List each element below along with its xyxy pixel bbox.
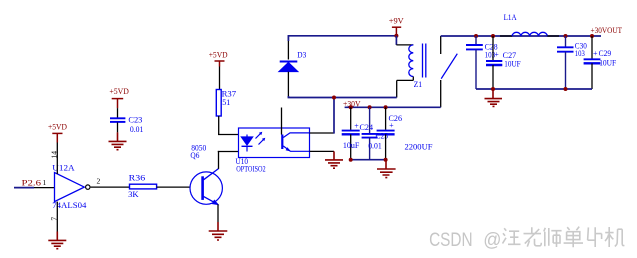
node junction bottom C26 bbox=[384, 158, 388, 162]
svg-text:3K: 3K bbox=[128, 190, 139, 199]
svg-text:C26: C26 bbox=[389, 114, 403, 123]
svg-text:P2.6: P2.6 bbox=[22, 179, 42, 188]
node junction C27 top bbox=[491, 34, 495, 38]
capacitor C27 bbox=[486, 36, 521, 89]
wire top rail (D3 to +9V node) bbox=[288, 36, 396, 41]
svg-text:+5VD: +5VD bbox=[48, 122, 67, 131]
svg-text:OPTOISO2: OPTOISO2 bbox=[236, 165, 266, 174]
capacitor C29 bbox=[584, 36, 617, 89]
op-amp U1 pin 14 bbox=[50, 143, 59, 175]
wire R37 to U10 anode bbox=[218, 134, 239, 136]
op-amp U1 pin 7 bbox=[50, 202, 59, 232]
node junction C24 bbox=[349, 105, 353, 109]
svg-text:7: 7 bbox=[50, 217, 59, 221]
optocoupler U10 box bbox=[236, 128, 310, 174]
ground at U12A pin 7 bbox=[48, 232, 66, 249]
node P2.6 net label bbox=[22, 179, 42, 188]
optocoupler U10 collector pin wire to node bbox=[310, 98, 335, 134]
svg-text:2: 2 bbox=[97, 176, 101, 185]
wire bottom rail output bbox=[476, 88, 592, 90]
node +30V net label bbox=[343, 99, 361, 108]
svg-text:D3: D3 bbox=[297, 50, 306, 59]
node junction C26 bbox=[384, 105, 388, 109]
wire rail B (-30V rail) bbox=[345, 106, 441, 108]
svg-text:+30VOUT: +30VOUT bbox=[591, 26, 623, 35]
inductor L1A bbox=[500, 13, 559, 36]
capacitor C26 bbox=[377, 107, 433, 159]
node junction C25 bbox=[368, 105, 372, 109]
transformer Z1 secondary switch bbox=[441, 36, 458, 107]
power +5VD at C23 bbox=[109, 87, 129, 108]
svg-text:+5VD: +5VD bbox=[109, 87, 129, 96]
wire +9V node down to transformer bbox=[395, 36, 397, 45]
wire Q6 collector to U10 bbox=[218, 151, 239, 169]
svg-text:51: 51 bbox=[222, 98, 230, 107]
capacitor C28 bbox=[466, 36, 498, 89]
op-amp U1 (inverter U12A triangle body) bbox=[52, 164, 90, 210]
wire rail A (D3 bottom to transformer return) bbox=[288, 96, 396, 98]
svg-text:+: + bbox=[354, 122, 359, 131]
power +5VD at U12A bbox=[48, 122, 67, 142]
node junction C29 top bbox=[590, 34, 594, 38]
svg-text:10uF: 10uF bbox=[343, 141, 360, 150]
svg-text:R36: R36 bbox=[129, 174, 146, 183]
svg-text:10UF: 10UF bbox=[599, 58, 617, 67]
transistor Q2 (Q6 8050 NPN) bbox=[190, 143, 222, 204]
ground at output rail bbox=[485, 89, 503, 106]
watermark hanzi 汪老师单片机 bbox=[503, 227, 625, 248]
svg-text:Z1: Z1 bbox=[414, 80, 423, 89]
transformer Z1 core bbox=[423, 44, 426, 78]
svg-text:+: + bbox=[593, 49, 598, 58]
node junction rail A bbox=[332, 96, 336, 100]
node junction bottom C24 bbox=[349, 158, 353, 162]
svg-text:0.01: 0.01 bbox=[368, 141, 382, 150]
capacitor C25 bbox=[362, 107, 388, 159]
watermark CSDN bbox=[429, 229, 501, 251]
resistor R37 bbox=[216, 67, 236, 135]
svg-text:C29: C29 bbox=[599, 49, 612, 58]
svg-text:103: 103 bbox=[575, 49, 585, 58]
wire P2.6 input bbox=[14, 187, 34, 189]
power +9V bbox=[389, 16, 404, 36]
capacitor C30 bbox=[557, 36, 587, 89]
optocoupler U10 emitter pin wire bbox=[310, 150, 335, 152]
ground at Q6 emitter bbox=[209, 222, 228, 240]
resistor R36 bbox=[112, 174, 191, 200]
svg-text:C23: C23 bbox=[128, 116, 142, 125]
svg-text:Q6: Q6 bbox=[190, 151, 199, 160]
svg-text:U12A: U12A bbox=[52, 164, 75, 173]
svg-text:10UF: 10UF bbox=[504, 59, 521, 68]
ground at U10 emitter bbox=[325, 151, 343, 168]
wire Q6 emitter down bbox=[217, 204, 219, 222]
svg-text:1: 1 bbox=[43, 178, 47, 187]
svg-text:+9V: +9V bbox=[389, 16, 404, 25]
svg-text:2200UF: 2200UF bbox=[405, 142, 434, 151]
node +9V junction bbox=[394, 34, 398, 38]
capacitor C23 bbox=[110, 108, 143, 134]
optocoupler U10 phototransistor bbox=[282, 133, 309, 152]
wire rail OUT (+30V output rail) bbox=[441, 35, 601, 37]
node +30VOUT net label bbox=[591, 26, 623, 35]
svg-text:C24: C24 bbox=[360, 123, 374, 132]
node junction C30 top bbox=[564, 34, 568, 38]
svg-text:CSDN: CSDN bbox=[429, 229, 473, 251]
node junction bottom C27 bbox=[491, 87, 495, 91]
power +5VD at R37 bbox=[209, 50, 228, 66]
node junction C28 top bbox=[474, 34, 478, 38]
svg-text:+: + bbox=[494, 50, 499, 59]
ground at C23 bbox=[109, 132, 127, 149]
op-amp U1 (inverter U12A 74ALS04) pin 1 bbox=[34, 178, 55, 188]
svg-text:L1A: L1A bbox=[504, 13, 517, 22]
svg-text:+5VD: +5VD bbox=[209, 50, 228, 59]
optocoupler U10 base pin (top) bbox=[281, 108, 283, 135]
capacitor C24 bbox=[342, 107, 373, 159]
transformer Z1 primary winding bbox=[396, 45, 422, 98]
optocoupler U10 LED bbox=[241, 135, 253, 152]
node junction bottom C30 bbox=[564, 87, 568, 91]
diode D3 bbox=[279, 36, 307, 97]
svg-text:@: @ bbox=[483, 229, 501, 251]
op-amp U1 pin 2 output bbox=[91, 176, 112, 187]
ground at C26 rail bbox=[377, 160, 396, 178]
svg-text:0.01: 0.01 bbox=[130, 125, 144, 134]
optocoupler U10 light arrows bbox=[256, 132, 266, 145]
wire bottom rail C24-C26 bbox=[351, 159, 386, 161]
svg-text:14: 14 bbox=[50, 151, 59, 159]
